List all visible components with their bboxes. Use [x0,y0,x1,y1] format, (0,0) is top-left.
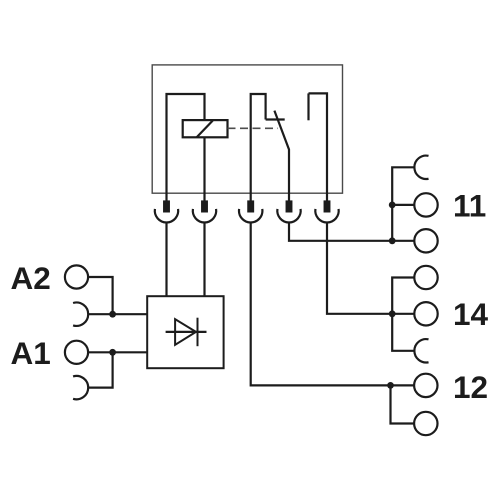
wire socket1 to rectifier [165,223,167,297]
stub to 11 bottom circle [392,240,414,242]
contact blade (common pole 11) [274,111,289,202]
terminal pin 1 (coil left) [163,200,170,212]
terminal circle 12 row2 [414,412,437,435]
junction dot A1 [109,349,116,356]
dashed actuation link [228,127,279,129]
stub to 14 middle circle [392,313,414,315]
junction dot 11 bottom [389,237,396,244]
terminal circle 11 row2 [414,193,437,216]
terminal circle 14 row1 [414,266,437,289]
terminal circle 14 row2 [414,302,437,325]
svg-text:A2: A2 [11,260,51,296]
bus 11 vertical [392,167,414,241]
socket arc 14 bottom [414,339,428,362]
wire socket2 to rectifier [203,223,205,297]
NO fixed contact [307,93,309,120]
wire coil left branch [167,94,205,202]
terminal pin 2 (coil right) [201,200,208,212]
socket arc 2 [193,209,216,223]
wire A1 socket to junction [88,352,112,387]
wire NO terminal to 14 bus [327,223,392,314]
coil diagonal stroke [197,121,213,138]
wire common terminal to 11 bus [289,223,392,241]
bus 14 vertical [392,278,414,351]
relay enclosure box K1 [152,65,342,193]
svg-text:A1: A1 [11,335,51,371]
socket arc 3 [239,209,262,223]
socket arc 4 [277,209,300,223]
terminal circle 11 row3 [414,229,437,252]
relay coil K1 [183,120,228,137]
terminal pin 4 (common) [286,200,293,212]
diode cathode bar [197,318,199,347]
junction dot 12 [387,382,394,389]
junction dot 14 [389,310,396,317]
socket arc 5 [315,209,338,223]
svg-text:14: 14 [453,296,489,332]
diode anode line [166,331,207,333]
socket arc 11 top [414,156,428,179]
junction dot 11 middle [389,202,396,209]
bridge rectifier box [147,296,223,368]
terminal circle A2 [65,265,88,288]
bus 12 stub top [391,384,415,386]
svg-text:11: 11 [453,188,486,224]
socket arc A1 [73,376,88,399]
stub to 11 middle circle [392,204,414,206]
bus 12 vertical [391,385,415,423]
wire coil bottom lead [203,137,205,202]
wire NO branch (terminal 14 side) [309,93,328,202]
wire NC branch (terminal 12 side) [251,94,266,202]
terminal circle 12 row1 [414,374,437,397]
wire A2 circle to junction [88,277,113,314]
svg-text:12: 12 [453,369,488,405]
wire NC terminal to 12 bus [251,223,391,386]
socket arc A2 [73,303,88,326]
terminal pin 3 (NC) [247,200,254,212]
diode triangle [175,319,196,345]
wire A2 socket to rectifier [88,313,147,315]
terminal pin 5 (NO) [324,200,331,212]
junction dot A2 [109,311,116,318]
NC fixed contact [266,118,285,120]
socket arc 1 [155,209,178,223]
wire A1 circle to rectifier [88,351,147,353]
terminal circle A1 [65,341,88,364]
